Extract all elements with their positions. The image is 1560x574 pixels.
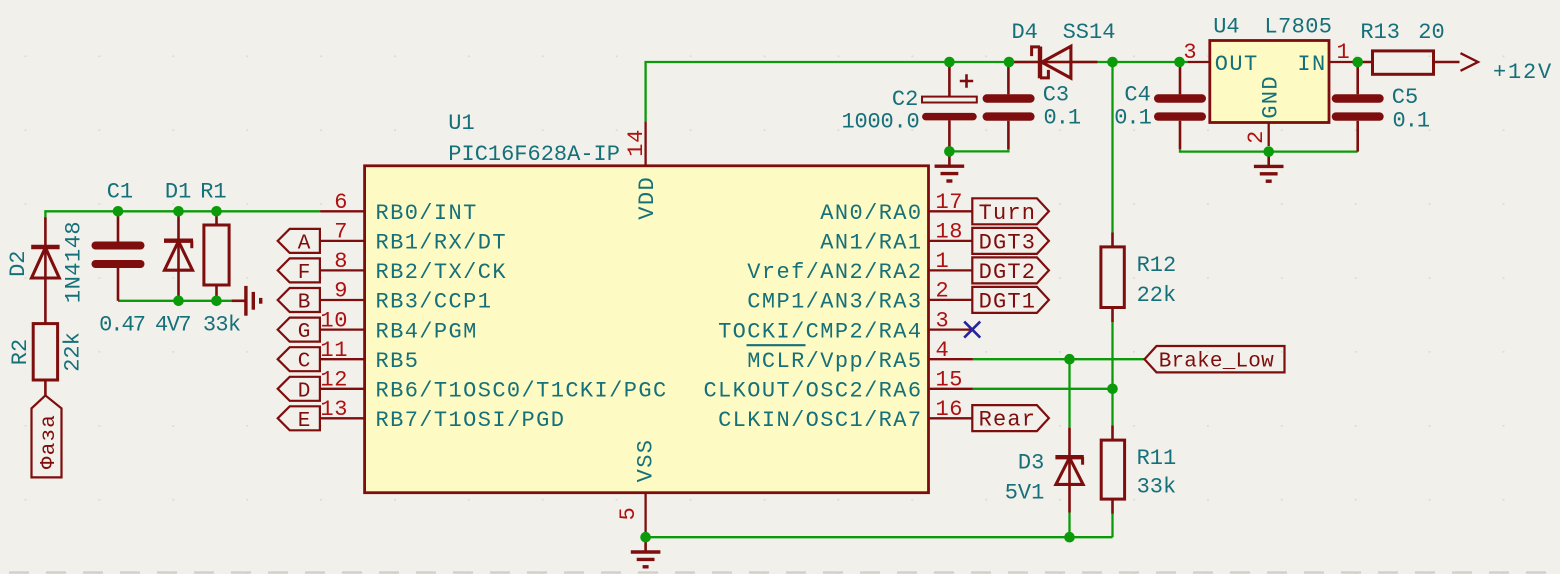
- svg-text:2: 2: [936, 279, 950, 304]
- label 20: [1418, 20, 1444, 45]
- capacitor C4 0.1: [1158, 62, 1202, 149]
- svg-text:8: 8: [334, 249, 348, 274]
- pin name RB3/CCP1: [376, 290, 493, 315]
- svg-text:Turn: Turn: [979, 201, 1037, 226]
- pin number 17: [936, 190, 964, 215]
- net flag F pin 8: [278, 258, 320, 285]
- svg-text:VSS: VSS: [634, 439, 659, 483]
- net flag G pin 10: [278, 318, 320, 345]
- net flag Rear pin 16: [972, 405, 1049, 433]
- polarized capacitor C2 1000.0: [922, 62, 977, 151]
- pin name MCLR/Vpp/RA5 with overline on MCLR: [747, 345, 923, 374]
- label R11: [1137, 446, 1177, 471]
- svg-text:DGT3: DGT3: [979, 230, 1037, 255]
- svg-text:1000.0: 1000.0: [841, 110, 919, 135]
- net flag C pin 11: [278, 347, 320, 374]
- svg-text:L7805: L7805: [1264, 15, 1332, 40]
- svg-text:F: F: [298, 262, 311, 285]
- svg-text:1: 1: [936, 249, 950, 274]
- pin name RB4/PGM: [376, 319, 478, 344]
- capacitor C1: [96, 211, 141, 300]
- svg-text:CLKIN/OSC1/RA7: CLKIN/OSC1/RA7: [718, 408, 922, 433]
- U1 pin 5 lead VSS bottom: [644, 493, 646, 538]
- node junction dot pin15: [1107, 384, 1118, 395]
- svg-text:3: 3: [936, 308, 950, 333]
- svg-text:R1: R1: [200, 179, 226, 204]
- svg-text:RB7/T1OSI/PGD: RB7/T1OSI/PGD: [376, 408, 566, 433]
- svg-text:C1: C1: [107, 179, 133, 204]
- node junction dot at U4 pin 2: [1263, 146, 1274, 157]
- ground under U4: [1254, 152, 1284, 182]
- net flag DGT2 pin 1: [972, 257, 1049, 285]
- svg-text:B: B: [298, 292, 311, 315]
- net flag Фаза: [32, 395, 62, 477]
- net flag Brake_Low: [1145, 346, 1285, 374]
- svg-text:RB3/CCP1: RB3/CCP1: [376, 290, 493, 315]
- pin number 16: [936, 397, 964, 422]
- pin name RB0/INT: [376, 201, 478, 226]
- svg-text:RB2/TX/CK: RB2/TX/CK: [376, 260, 507, 285]
- svg-text:14: 14: [624, 129, 649, 157]
- no-connect X pin 3: [964, 322, 980, 338]
- svg-text:0.1: 0.1: [1044, 105, 1081, 130]
- svg-text:C3: C3: [1043, 83, 1069, 108]
- zener diode D3 5V1: [1055, 428, 1083, 513]
- pin number 2: [936, 279, 950, 304]
- label 4V7: [155, 313, 190, 338]
- pin number 8: [334, 249, 348, 274]
- svg-text:PIC16F628A-IP: PIC16F628A-IP: [448, 142, 620, 167]
- svg-text:0.47: 0.47: [99, 313, 145, 338]
- U1 pin 14 lead VDD top: [644, 121, 646, 165]
- svg-text:MCLR/Vpp/RA5: MCLR/Vpp/RA5: [747, 349, 922, 374]
- label U1: [448, 111, 474, 136]
- svg-text:12: 12: [320, 368, 348, 393]
- label R12: [1137, 253, 1177, 278]
- svg-text:G: G: [298, 321, 311, 344]
- svg-text:R12: R12: [1137, 253, 1177, 278]
- schottky diode D4 SS14: [1013, 46, 1097, 78]
- wire: VDD rail from pin 14 up and across to U4 pin 3: [646, 62, 1188, 121]
- +12V arrow head: [1461, 53, 1479, 71]
- capacitor C5 0.1: [1336, 62, 1380, 152]
- svg-text:0.1: 0.1: [1393, 108, 1430, 133]
- pin name RB7/T1OSI/PGD: [376, 408, 566, 433]
- label L7805: [1264, 15, 1332, 40]
- pin number 3: [936, 308, 950, 333]
- U4 pin 3 lead: [1188, 61, 1210, 63]
- svg-text:CLKOUT/OSC2/RA6: CLKOUT/OSC2/RA6: [703, 379, 922, 404]
- pin number 5 rotated: [616, 507, 641, 521]
- svg-text:Фаза: Фаза: [38, 414, 61, 469]
- pin number 18: [936, 220, 964, 245]
- svg-text:TOCKI/CMP2/RA4: TOCKI/CMP2/RA4: [718, 319, 922, 344]
- pin name Vref/AN2/RA2: [747, 260, 922, 285]
- pin name RB5: [376, 349, 420, 374]
- label 1000.0: [841, 110, 919, 135]
- svg-text:RB0/INT: RB0/INT: [376, 201, 478, 226]
- svg-text:Brake_Low: Brake_Low: [1159, 351, 1274, 374]
- net flag B pin 9: [278, 288, 320, 315]
- label 0.1 C4: [1114, 105, 1151, 130]
- svg-text:Vref/AN2/RA2: Vref/AN2/RA2: [747, 260, 922, 285]
- svg-text:OUT: OUT: [1215, 52, 1259, 77]
- wire: pin 4 to Brake_Low: [973, 358, 1145, 360]
- svg-text:22k: 22k: [61, 332, 86, 372]
- label C4: [1124, 83, 1150, 108]
- svg-text:0.1: 0.1: [1114, 105, 1151, 130]
- node junction dots on bottom rail: [640, 532, 1074, 543]
- sheet bottom dashed border: [0, 571, 1560, 573]
- svg-text:U4: U4: [1213, 15, 1239, 40]
- svg-text:6: 6: [334, 190, 348, 215]
- pin name VDD rotated: [635, 176, 660, 220]
- pin number 7: [334, 220, 348, 245]
- svg-text:20: 20: [1418, 20, 1444, 45]
- svg-text:33k: 33k: [203, 313, 241, 338]
- svg-text:AN1/RA1: AN1/RA1: [820, 231, 922, 256]
- pin name CMP1/AN3/RA3: [747, 290, 922, 315]
- label 0.1 C3: [1044, 105, 1081, 130]
- label 1N4148: [62, 221, 87, 303]
- svg-text:1N4148: 1N4148: [62, 221, 87, 303]
- IC U1 PIC16F628A body: [365, 166, 929, 493]
- U4 pin 1 lead: [1329, 61, 1352, 63]
- pin number 1 U4: [1337, 40, 1351, 65]
- U4 pin name GND rotated: [1259, 75, 1284, 119]
- svg-text:7: 7: [334, 220, 348, 245]
- label R2: [8, 339, 33, 365]
- diode D2 1N4148: [31, 217, 59, 309]
- U1 right pin leads 17,18,1,2,3,4,15,16: [929, 211, 973, 418]
- pin number 12: [320, 368, 348, 393]
- regulator U4 L7805 body: [1210, 41, 1329, 123]
- wire: D3 bottom to bottom rail: [1068, 513, 1070, 538]
- pin number 13: [320, 397, 348, 422]
- capacitor C3 0.1: [987, 62, 1031, 149]
- svg-text:18: 18: [936, 220, 964, 245]
- resistor R13: [1352, 51, 1460, 74]
- svg-text:CMP1/AN3/RA3: CMP1/AN3/RA3: [747, 290, 922, 315]
- ground VSS below pin 5: [631, 537, 661, 567]
- label D2: [6, 250, 31, 276]
- svg-text:5: 5: [616, 507, 641, 521]
- net flag E pin 13: [278, 406, 320, 433]
- ground right-facing near R1: [232, 286, 261, 316]
- svg-text:D3: D3: [1018, 451, 1044, 476]
- wire: pin15 node down to R11: [1111, 389, 1113, 426]
- wire: bottom ground rail: [646, 536, 1113, 538]
- svg-text:RB6/T1OSC0/T1CKI/PGC: RB6/T1OSC0/T1CKI/PGC: [376, 379, 668, 404]
- svg-text:GND: GND: [1259, 75, 1284, 119]
- node junction dots on VDD rail: [944, 57, 1363, 68]
- svg-text:D2: D2: [6, 250, 31, 276]
- svg-text:3: 3: [1183, 40, 1197, 65]
- wire: main vertical rail to R12: [1111, 62, 1113, 233]
- svg-text:A: A: [298, 232, 311, 255]
- resistor R12: [1101, 233, 1124, 323]
- pin number 4: [936, 338, 950, 363]
- node junction dot pin4/D3: [1064, 354, 1075, 365]
- label SS14: [1063, 20, 1116, 45]
- svg-text:9: 9: [334, 279, 348, 304]
- label R13: [1360, 20, 1400, 45]
- svg-text:11: 11: [320, 338, 348, 363]
- label +12V: [1493, 60, 1553, 85]
- pin number 10: [320, 308, 348, 333]
- pin number 15: [936, 368, 964, 393]
- label R1: [200, 179, 226, 204]
- svg-text:33k: 33k: [1137, 475, 1177, 500]
- pin name TOCKI/CMP2/RA4: [718, 319, 922, 344]
- svg-text:C: C: [298, 351, 311, 374]
- resistor R11: [1101, 425, 1124, 514]
- pin name AN1/RA1: [820, 231, 922, 256]
- svg-text:15: 15: [936, 368, 964, 393]
- svg-text:17: 17: [936, 190, 964, 215]
- svg-text:4: 4: [936, 338, 950, 363]
- pin number 2 U4 rotated: [1244, 130, 1269, 144]
- svg-text:RB1/RX/DT: RB1/RX/DT: [376, 231, 507, 256]
- pin name CLKOUT/OSC2/RA6: [703, 379, 922, 404]
- svg-text:4V7: 4V7: [155, 313, 190, 338]
- wire: C2 to C3 ground link: [949, 148, 1008, 151]
- U4 pin name IN: [1297, 52, 1326, 77]
- net flag DGT1 pin 2: [972, 287, 1049, 315]
- label U4: [1213, 15, 1239, 40]
- label 0.1 C5: [1393, 108, 1430, 133]
- net flag D pin 12: [278, 377, 320, 404]
- label D4: [1011, 20, 1037, 45]
- node junction dots on top-left rail: [113, 206, 222, 217]
- svg-text:D: D: [298, 380, 311, 403]
- wire: C4 bottom to U4 GND node: [1180, 149, 1358, 152]
- pin number 1: [936, 249, 950, 274]
- label C1: [107, 179, 133, 204]
- pin name RB1/RX/DT: [376, 231, 507, 256]
- label 22k R12: [1137, 283, 1177, 308]
- resistor R2: [33, 309, 57, 395]
- label D3: [1018, 451, 1044, 476]
- svg-text:16: 16: [936, 397, 964, 422]
- pin name VSS rotated: [634, 439, 659, 483]
- svg-text:RB4/PGM: RB4/PGM: [376, 319, 478, 344]
- svg-text:AN0/RA0: AN0/RA0: [820, 201, 922, 226]
- svg-text:Rear: Rear: [979, 408, 1037, 433]
- svg-text:DGT1: DGT1: [979, 289, 1037, 314]
- svg-text:22k: 22k: [1137, 283, 1177, 308]
- label 33k R11: [1137, 475, 1177, 500]
- node junction dots on bottom-left rail: [173, 296, 222, 307]
- label C5: [1392, 85, 1418, 110]
- net flag A pin 7: [278, 229, 320, 256]
- node junction dot under C2: [944, 146, 955, 157]
- pin number 14 rotated: [624, 129, 649, 157]
- label 22k R2: [61, 332, 86, 372]
- svg-text:R2: R2: [8, 339, 33, 365]
- label 33k R1: [203, 313, 241, 338]
- pin number 11: [320, 338, 348, 363]
- svg-text:+12V: +12V: [1493, 60, 1553, 85]
- svg-text:R13: R13: [1360, 20, 1400, 45]
- svg-text:10: 10: [320, 308, 348, 333]
- svg-text:R11: R11: [1137, 446, 1177, 471]
- svg-text:C5: C5: [1392, 85, 1418, 110]
- pin number 9: [334, 279, 348, 304]
- pin number 3 U4: [1183, 40, 1197, 65]
- U1 left pin leads 6-13: [320, 211, 364, 418]
- label D1: [165, 179, 191, 204]
- svg-text:5V1: 5V1: [1005, 481, 1045, 506]
- svg-text:2: 2: [1244, 130, 1269, 144]
- wire: R11 bottom corner to bottom rail: [1111, 514, 1113, 537]
- zener diode D1 4V7: [164, 211, 193, 300]
- svg-text:C4: C4: [1124, 83, 1150, 108]
- svg-text:RB5: RB5: [376, 349, 420, 374]
- pin number 6: [334, 190, 348, 215]
- svg-text:DGT2: DGT2: [979, 260, 1037, 285]
- wire: R12 bottom to pin15 node: [1111, 322, 1113, 389]
- label C2: [892, 87, 918, 112]
- pin name AN0/RA0: [820, 201, 922, 226]
- wire: pin 15 to vertical rail: [973, 388, 1113, 390]
- net flag Turn pin 17: [972, 198, 1049, 226]
- label 0.47: [99, 313, 145, 338]
- ground under C2: [935, 151, 965, 181]
- svg-text:E: E: [298, 410, 311, 433]
- wire: top-left rail from corner to pin 6: [45, 211, 320, 219]
- U4 pin 2 lead: [1268, 123, 1270, 147]
- label 5V1: [1005, 481, 1045, 506]
- svg-text:13: 13: [320, 397, 348, 422]
- U4 pin name OUT: [1215, 52, 1259, 77]
- svg-text:U1: U1: [448, 111, 474, 136]
- wire: D3 branch down: [1068, 359, 1070, 427]
- pin name RB6/T1OSC0/T1CKI/PGC: [376, 379, 668, 404]
- svg-text:D4: D4: [1011, 20, 1037, 45]
- wire: bottom-left rail C1/D1/R1 to ground: [118, 300, 232, 302]
- svg-text:VDD: VDD: [635, 176, 660, 220]
- label C3: [1043, 83, 1069, 108]
- pin name RB2/TX/CK: [376, 260, 507, 285]
- pin name CLKIN/OSC1/RA7: [718, 408, 922, 433]
- svg-text:C2: C2: [892, 87, 918, 112]
- svg-text:IN: IN: [1297, 52, 1326, 77]
- svg-text:D1: D1: [165, 179, 191, 204]
- label PIC16F628A-IP: [448, 142, 620, 167]
- resistor R1: [204, 211, 229, 300]
- net flag DGT3 pin 18: [972, 228, 1049, 256]
- svg-text:SS14: SS14: [1063, 20, 1116, 45]
- svg-text:1: 1: [1337, 40, 1351, 65]
